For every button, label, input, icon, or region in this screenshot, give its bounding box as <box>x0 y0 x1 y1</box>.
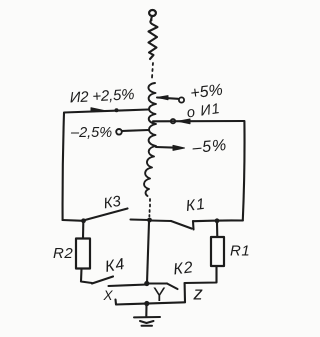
svg-text:R1: R1 <box>230 243 250 260</box>
wire -5% tap <box>156 146 180 149</box>
junction node center lower <box>144 281 149 286</box>
dashed core line upper <box>152 63 153 78</box>
svg-text:–5%: –5% <box>191 137 228 157</box>
terminal on И1 line <box>171 119 175 123</box>
junction node right <box>215 218 220 223</box>
terminal +5% <box>179 97 184 102</box>
switch K1 contact tick <box>192 221 195 230</box>
switch K2 contact tick <box>184 284 186 303</box>
arrow on +5% tap <box>158 96 169 100</box>
wire R2 bottom lead <box>81 269 92 284</box>
arrow on И1 line <box>178 119 190 124</box>
svg-text:–2,5%: –2,5% <box>70 125 112 141</box>
wire K2 moving side <box>148 282 167 284</box>
resistor R2 <box>76 239 90 269</box>
svg-text:К1: К1 <box>185 196 207 215</box>
arrow on +2.5% line <box>91 108 105 112</box>
switch K4 blade <box>92 277 113 284</box>
svg-text:И2 +2,5%: И2 +2,5% <box>69 86 134 106</box>
switch K1 blade <box>171 221 192 229</box>
wire K2 fixed line to R1 <box>185 266 217 283</box>
terminal -2.5% <box>116 129 122 135</box>
wire bottom bracket <box>116 300 186 305</box>
junction node bottom <box>144 301 149 306</box>
inductor L2 tapped winding <box>144 83 156 196</box>
svg-text:R2: R2 <box>53 245 73 262</box>
switch K2 blade <box>167 284 178 290</box>
terminal top input <box>149 10 156 20</box>
inductor L1 upper winding <box>149 20 158 59</box>
svg-text:Х: Х <box>103 288 114 303</box>
wire +5% tap <box>157 98 178 99</box>
junction node left <box>81 218 86 223</box>
wire bus left segment <box>63 219 84 222</box>
wire bus center-left segment <box>131 218 150 221</box>
svg-text:К4: К4 <box>104 256 127 276</box>
resistor R1 <box>211 237 224 266</box>
wire K4 fixed contact line <box>109 285 148 287</box>
wire bus right segment <box>194 219 243 222</box>
arrow on -5% tap <box>173 145 185 150</box>
wire left rail <box>63 113 64 220</box>
wire R2 top lead <box>82 223 84 239</box>
wire bus center-right segment <box>150 219 171 222</box>
switch K3 blade <box>85 209 128 221</box>
wire right rail <box>243 121 245 220</box>
wire R1 top lead <box>216 223 218 237</box>
wire И1 line <box>153 120 244 122</box>
wire ground stem <box>145 305 147 317</box>
svg-text:Y: Y <box>153 285 166 306</box>
svg-text:z: z <box>193 283 203 304</box>
junction on +2.5% line <box>115 108 119 112</box>
junction node center <box>147 218 152 223</box>
wire +2.5% tap line <box>64 110 148 113</box>
dashed core line lower <box>148 199 151 217</box>
ground <box>134 317 160 326</box>
wire -2.5% tap <box>122 130 149 131</box>
svg-text:К2: К2 <box>172 259 194 278</box>
wire center drop <box>147 222 149 283</box>
